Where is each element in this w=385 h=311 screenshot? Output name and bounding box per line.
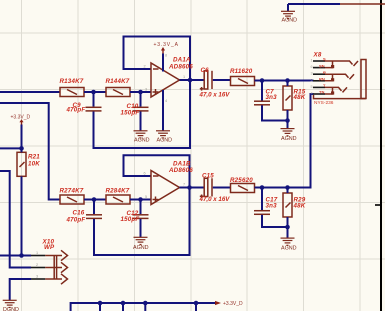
wire (brown continuation) (340, 3, 385, 5)
node junction B1 (92, 197, 97, 202)
wire (287, 227, 289, 238)
wire stub (195, 303, 197, 311)
node junction ground B (285, 225, 290, 230)
svg-text:R25620: R25620 (230, 177, 253, 184)
node junction rail 3 (143, 301, 148, 306)
svg-text:5: 5 (145, 195, 147, 199)
svg-text:47,0 x 16V: 47,0 x 16V (199, 92, 231, 99)
svg-text:+3.3V_A: +3.3V_A (154, 42, 179, 48)
power port +3.3V_D bottom (215, 301, 243, 307)
X8 pin 4 TN (311, 90, 326, 96)
svg-text:48K: 48K (293, 203, 306, 210)
wire (130, 199, 151, 201)
connector X8 NYS-236 jack (313, 52, 334, 106)
node junction C17 tap (260, 185, 265, 190)
svg-text:R274K7: R274K7 (60, 188, 84, 195)
node junction rail 1 (98, 301, 103, 306)
X10 pin 1 (31, 250, 68, 260)
svg-text:R11620: R11620 (230, 68, 253, 75)
svg-text:3n3: 3n3 (266, 94, 278, 101)
svg-text:X8: X8 (313, 52, 322, 59)
svg-text:WP: WP (44, 244, 55, 251)
wire: R11 to jack RN (255, 80, 314, 82)
capacitor C9 (66, 92, 102, 114)
svg-text:C15: C15 (202, 172, 214, 179)
svg-text:AGND: AGND (157, 138, 173, 144)
svg-text:AGND: AGND (281, 136, 297, 142)
resistor R11 (230, 68, 255, 85)
wire (213, 79, 231, 81)
wire: C16 to output loop (94, 188, 190, 256)
svg-text:3n3: 3n3 (266, 203, 278, 210)
X10 pin 2 (31, 262, 68, 272)
X10 pin 3 (31, 274, 68, 284)
svg-text:2: 2 (311, 78, 313, 82)
svg-text:RN: RN (319, 77, 325, 82)
wire: R25 to jack TN riser (255, 94, 314, 188)
node junction A1 (91, 90, 96, 95)
wire: +3.3V_D bottom rail (71, 303, 215, 311)
svg-text:5: 5 (311, 85, 313, 89)
ground DGND (3, 300, 19, 311)
svg-text:7: 7 (183, 183, 185, 187)
svg-text:R21: R21 (28, 154, 40, 161)
capacitor C10 (121, 92, 149, 131)
svg-text:C16: C16 (73, 210, 85, 217)
ground AGND under C10 (134, 131, 150, 144)
node junction B2 (138, 197, 143, 202)
wire (84, 199, 106, 201)
node junction rail 2 (121, 301, 126, 306)
capacitor C12 (121, 200, 149, 238)
wire: channel B input (0, 103, 60, 200)
resistor R15 (283, 81, 306, 121)
svg-text:AD8606: AD8606 (168, 64, 193, 71)
capacitor C17 (254, 188, 278, 215)
svg-text:SN: SN (319, 63, 325, 68)
svg-text:3: 3 (36, 275, 38, 279)
X8 contact pair T/TN (325, 87, 347, 94)
svg-text:AGND: AGND (133, 245, 149, 251)
svg-text:+3.3V_D: +3.3V_D (223, 301, 243, 307)
svg-text:AD8606: AD8606 (168, 167, 193, 174)
wire: C7 bottom to ground node (262, 105, 288, 120)
svg-text:6: 6 (311, 65, 313, 69)
wire: top right AGND wire (288, 3, 340, 5)
op-amp power pin bottom wire (162, 90, 164, 131)
node junction rail 4 (194, 301, 199, 306)
wire stub (144, 303, 146, 311)
svg-text:1: 1 (311, 59, 313, 63)
svg-text:1: 1 (183, 75, 185, 79)
resistor R27 (60, 188, 85, 204)
svg-text:150pF: 150pF (121, 110, 140, 117)
op-amp DA1A feedback wire (124, 37, 191, 81)
node output junction A (188, 78, 193, 83)
wire: X10 pin3 from DGND (10, 279, 31, 300)
wire: R21 node (0, 147, 22, 149)
X8 pin 2 RN (311, 77, 326, 83)
capacitor C7 (254, 81, 277, 105)
node output junction B (187, 185, 192, 190)
X8 pin 3 R (311, 70, 327, 76)
resistor R21 (17, 148, 40, 255)
capacitor C6 (electrolytic) (199, 67, 231, 99)
X10 body bars (54, 255, 56, 280)
wire (130, 91, 151, 93)
node junction R29 tap (285, 185, 290, 190)
ground AGND under C12 (133, 237, 149, 251)
ground AGND under op-amp (156, 131, 172, 144)
wire: C17 bottom to ground node (262, 215, 288, 227)
svg-text:48K: 48K (293, 94, 306, 101)
svg-text:3: 3 (145, 88, 147, 92)
wire: C9 to output loop (94, 80, 191, 148)
svg-text:2: 2 (36, 263, 38, 267)
wire (287, 121, 289, 129)
node junction ground A (285, 118, 290, 123)
svg-text:+3.3V_D: +3.3V_D (11, 115, 31, 121)
svg-text:DGND: DGND (3, 307, 19, 311)
svg-text:R134K7: R134K7 (60, 78, 84, 85)
svg-text:470pF: 470pF (66, 217, 86, 224)
svg-text:AGND: AGND (282, 18, 298, 24)
wire: channel A input (0, 91, 60, 93)
resistor R13 (60, 78, 85, 96)
op-amp DA1A AD8606 (144, 54, 194, 104)
svg-text:2: 2 (144, 65, 146, 69)
svg-text:C6: C6 (201, 67, 210, 74)
ground AGND top right (281, 11, 297, 23)
X8 contact pair S/SN (325, 61, 358, 68)
X8 contact pair R/RN (325, 74, 354, 81)
svg-text:470pF: 470pF (66, 107, 86, 114)
svg-text:4: 4 (165, 99, 167, 103)
wire: X10 pin2 input (0, 171, 31, 268)
svg-text:8: 8 (165, 54, 167, 58)
X8 body bar (361, 60, 366, 99)
power port +3.3V_A (154, 42, 179, 72)
power port +3.3V_D left (11, 115, 31, 149)
X8 pin 5 T (311, 83, 327, 89)
resistor R29 (283, 188, 306, 228)
connector X10 WP (42, 239, 56, 252)
X8 sleeve bottom line (314, 95, 366, 99)
svg-text:3: 3 (311, 72, 313, 76)
resistor R28 (106, 188, 131, 204)
node junction R21 top (19, 146, 24, 151)
svg-text:4: 4 (311, 92, 313, 96)
svg-text:TN: TN (319, 90, 324, 95)
svg-text:1: 1 (36, 251, 38, 255)
wire (84, 91, 106, 93)
node junction R15 tap (285, 78, 290, 83)
node junction C7 tap (260, 78, 265, 83)
svg-text:AGND: AGND (134, 138, 150, 144)
wire: op-amp B output (180, 187, 205, 189)
X8 pin 6 SN (311, 63, 326, 69)
wire (213, 187, 231, 189)
svg-text:47,0 x 16V: 47,0 x 16V (199, 196, 231, 203)
op-amp DA1B feedback wire (124, 155, 190, 187)
capacitor C15 (electrolytic) (199, 172, 231, 203)
svg-text:150pF: 150pF (121, 216, 140, 223)
op-amp DA1B AD8606 (144, 161, 194, 205)
ground AGND under C17/R29 (281, 238, 297, 251)
svg-text:10K: 10K (28, 161, 40, 168)
svg-text:6: 6 (144, 172, 146, 176)
svg-text:R144K7: R144K7 (106, 78, 130, 85)
node junction X10 pin1 (19, 253, 24, 258)
wire: X10 pin1 input (0, 255, 31, 257)
node junction A2 (138, 90, 143, 95)
svg-text:NYS-236: NYS-236 (314, 100, 334, 106)
capacitor C16 (66, 200, 103, 224)
svg-text:DA1A: DA1A (173, 57, 191, 64)
ground AGND under C7/R15 (281, 129, 297, 142)
X8 pin 1 S (311, 57, 327, 63)
wire stub (122, 303, 124, 311)
wire stub (99, 303, 101, 311)
wire (287, 4, 289, 11)
svg-text:AGND: AGND (281, 246, 297, 252)
svg-text:R284K7: R284K7 (106, 188, 130, 195)
resistor R25 (230, 177, 255, 193)
wire: op-amp A output (180, 79, 205, 81)
resistor R14 (106, 78, 131, 96)
